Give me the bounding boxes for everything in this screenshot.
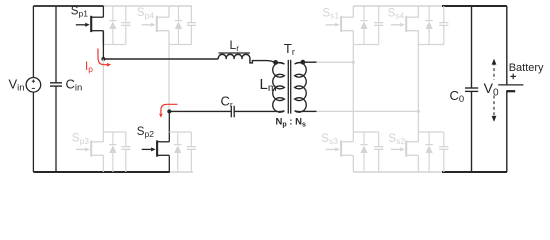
svg-text:Ss3: Ss3 (321, 133, 338, 146)
svg-text:Lr: Lr (230, 38, 240, 53)
svg-text:C0: C0 (450, 88, 465, 105)
svg-text:Battery: Battery (509, 62, 544, 74)
svg-text:Ip: Ip (85, 61, 93, 74)
svg-text:Np : Ns: Np : Ns (276, 117, 306, 129)
svg-text:Vin: Vin (9, 77, 25, 94)
svg-text:Sp1: Sp1 (71, 5, 88, 18)
svg-text:Sp3: Sp3 (72, 133, 89, 146)
svg-text:Sp4: Sp4 (137, 7, 154, 20)
svg-text:Tr: Tr (284, 41, 295, 57)
svg-text:Cin: Cin (66, 77, 83, 94)
svg-text:V0: V0 (484, 80, 499, 98)
svg-text:Ss4: Ss4 (388, 7, 405, 20)
svg-text:Cr: Cr (221, 94, 233, 110)
svg-text:Ss2: Ss2 (388, 133, 405, 146)
svg-text:Sp2: Sp2 (137, 126, 154, 139)
svg-text:Lm: Lm (260, 76, 277, 94)
svg-text:Ss1: Ss1 (322, 7, 339, 20)
